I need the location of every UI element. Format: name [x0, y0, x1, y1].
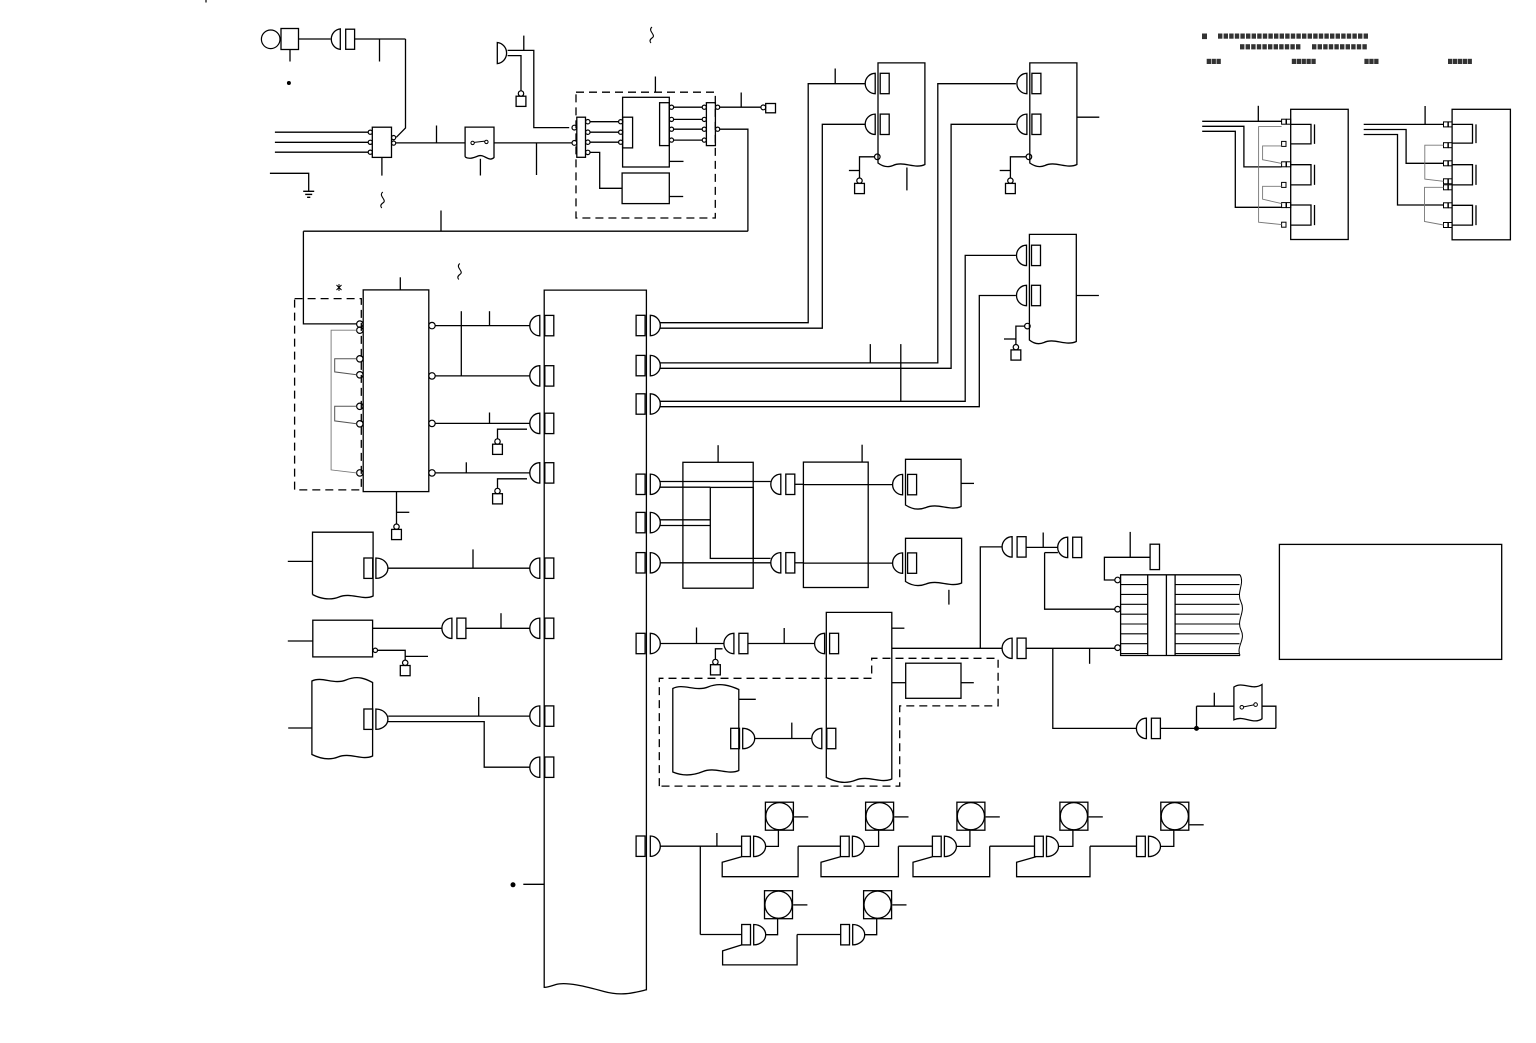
ribbon wire 7 left	[1121, 643, 1148, 645]
T1 winding W2	[335, 406, 357, 424]
note label spec-1	[1292, 59, 1296, 64]
gate B lower stub	[1045, 552, 1058, 554]
ribbon torn edge	[1239, 575, 1242, 656]
gate E pin pair	[1136, 718, 1160, 738]
tick on S2 wire	[1213, 693, 1215, 707]
gate G1	[742, 836, 766, 856]
tick below wire	[536, 143, 538, 175]
tick on aux wire	[849, 170, 860, 172]
terminal E2	[761, 105, 766, 110]
wire branch up to gate A	[980, 547, 1002, 648]
wye tap terminal 2	[1282, 141, 1286, 146]
RB1 aux pin circle	[875, 154, 881, 160]
delta tap terminal 1	[1444, 122, 1448, 127]
box B6 input pin 1	[815, 633, 839, 653]
B3 top tick	[861, 445, 863, 462]
wire relay to switch S1	[396, 142, 465, 144]
logic box B2 body	[710, 487, 753, 558]
tick on aux wire	[405, 655, 428, 657]
wire T1 out2	[435, 375, 530, 377]
gate G4 output to lamp	[1059, 830, 1073, 846]
controller right pin 1	[636, 315, 660, 335]
ribbon wire 6 left	[1121, 633, 1148, 635]
tick above wire	[436, 126, 438, 143]
gate G1 output to lamp	[766, 830, 779, 846]
wye jumper long	[1259, 127, 1282, 225]
wire pin7 to connector	[660, 643, 724, 645]
terminal E7	[1008, 178, 1013, 183]
tick on wire	[478, 697, 480, 716]
plug body stem	[289, 50, 291, 62]
relay block RB3 body	[1029, 234, 1076, 343]
relay K1 output pin circles	[392, 136, 396, 140]
wire to switch S2	[1197, 705, 1234, 707]
gate A output wire	[1026, 546, 1058, 548]
RB3 pin 2	[1017, 285, 1041, 305]
wye input line 1	[1202, 120, 1281, 122]
block B aux wire to terminal	[378, 650, 406, 660]
RB2 right tick	[1077, 116, 1099, 118]
inline connector pair CN3	[442, 618, 466, 638]
controller left pin 7	[530, 706, 554, 726]
lamp DS2 tick	[894, 816, 908, 818]
lamp DS6 tick	[793, 904, 807, 906]
mid connector pin pair lower	[771, 553, 795, 573]
gate A pin pair	[1002, 537, 1026, 557]
note label input-2	[1364, 59, 1368, 64]
lamp DS3	[957, 802, 985, 830]
wire U1 to output bar 4	[674, 139, 703, 141]
box B7 body	[906, 663, 961, 698]
terminal E4	[495, 439, 500, 444]
controller right pin 7	[636, 633, 660, 653]
wye diagram body	[1291, 109, 1349, 239]
tick on gate A output	[1042, 533, 1044, 548]
inline connector pair CN2	[724, 633, 748, 653]
wire pin5 line A	[660, 519, 710, 521]
RB5 input pin	[893, 553, 917, 573]
horn lower wire to terminal	[508, 56, 521, 91]
tick on F1 wire	[1129, 532, 1131, 557]
tiny top edge mark	[205, 0, 207, 3]
asterisk mark	[337, 284, 342, 291]
row1 zigzag link 2	[821, 846, 932, 877]
delta winding W2	[1452, 165, 1476, 185]
wire to box B3 lower	[795, 562, 804, 564]
wire pair pin2 line B	[660, 124, 1016, 368]
RB1 aux wire to terminal	[860, 157, 875, 179]
output header bar J2	[706, 103, 715, 146]
transformer T1 body	[363, 290, 429, 492]
relay K1 bottom stem	[381, 157, 383, 175]
converter IC U2 body	[622, 173, 669, 204]
delta winding W1	[1452, 124, 1476, 143]
ribbon wire 4 right	[1175, 613, 1239, 615]
tick on stem	[397, 511, 410, 513]
wire down to relay K1	[396, 39, 405, 137]
wire J1 pin4 to U2	[590, 152, 622, 188]
wire block A to controller pin L5	[388, 567, 530, 569]
ribbon wire 5 right	[1175, 623, 1239, 625]
branch down to row2	[699, 846, 701, 934]
phase line L1	[275, 131, 368, 133]
gate E output wire	[1161, 727, 1276, 729]
switch S2 return wire	[1262, 706, 1276, 728]
tick below wire	[379, 39, 381, 62]
delta input line 3	[1364, 135, 1444, 206]
lamp DS7 tick	[892, 904, 906, 906]
controller right pin 2	[636, 355, 660, 375]
break squiggle near relay	[381, 192, 384, 208]
gate G4	[1035, 836, 1059, 856]
relay block RB2 body	[1030, 63, 1077, 167]
delta diagram body	[1452, 109, 1510, 240]
ribbon cable bar 1	[1147, 575, 1149, 656]
wire through B3 upper	[803, 484, 868, 486]
connector half P1 mate rect	[346, 29, 355, 49]
RB3 right tick	[1076, 295, 1099, 297]
gate G6	[742, 925, 766, 945]
wire T1 out1	[435, 325, 530, 327]
B1 top tick	[717, 445, 719, 462]
RB1 bottom stem	[906, 168, 908, 191]
switch S2 contacts	[1240, 706, 1244, 710]
wire pin5 line B	[660, 525, 710, 527]
wire B3 to RB4 upper	[868, 484, 892, 486]
terminal E8	[1013, 345, 1018, 350]
block B aux pin circle	[373, 648, 377, 652]
wye tap terminal 4	[1282, 182, 1286, 187]
B7 right tick	[961, 682, 974, 684]
relay K1 body	[372, 127, 391, 157]
ribbon wire 2 right	[1175, 593, 1239, 595]
tick on wire	[783, 628, 785, 644]
wye tap terminal 5	[1282, 203, 1286, 208]
gate G7 output to lamp	[865, 919, 877, 935]
ribbon wire 3 left	[1121, 603, 1148, 605]
legend box	[1279, 544, 1501, 659]
input wire to block C	[288, 727, 312, 729]
lamp DS7	[864, 891, 892, 919]
wire J1 to U1 pin3	[590, 141, 619, 143]
U1 left port rect	[623, 117, 633, 148]
lamp DS4	[1060, 802, 1088, 830]
ribbon cable outer frame	[1121, 575, 1240, 656]
block C output pin	[364, 709, 388, 729]
T1 primary pin circles	[357, 321, 363, 327]
box B6 input pin 2	[812, 728, 836, 748]
T1 tap loop wire	[331, 330, 357, 473]
lamp DS1	[765, 802, 793, 830]
logic box B1 body	[683, 462, 753, 588]
converter IC U1 body	[623, 97, 670, 167]
wire CN2 to box B6	[748, 643, 814, 645]
ribbon wire 4 left	[1121, 613, 1148, 615]
wire U1 to output bar 1	[674, 106, 703, 108]
ribbon wire 8 right	[1175, 653, 1239, 655]
relay box RB4 body	[906, 459, 962, 509]
RB3 aux wire to terminal	[1016, 326, 1025, 344]
delta tap terminal 7	[1444, 223, 1448, 228]
block B body	[313, 620, 373, 657]
gate C output wire to ribbon pin3	[1026, 647, 1114, 649]
dot mark near stub	[511, 883, 515, 887]
note text line 2	[1240, 44, 1244, 49]
ground wire	[270, 173, 309, 191]
block C wire line B to pin L8	[388, 722, 530, 768]
lamp DS6	[765, 891, 793, 919]
tick on wire4	[465, 462, 467, 473]
tick on wire	[791, 723, 793, 739]
wire connector to corner	[355, 38, 406, 40]
terminal E1	[518, 91, 523, 96]
ribbon wire 3 right	[1175, 603, 1239, 605]
ribbon wire 1 left	[1121, 584, 1148, 586]
terminal E3	[394, 524, 399, 529]
tick on wire3	[489, 413, 491, 424]
block C wire line A to pin L7	[388, 715, 530, 717]
lamp DS5	[1161, 802, 1189, 830]
wire to gate G6	[700, 934, 741, 936]
controller left pin 1	[530, 315, 554, 335]
block C body	[312, 678, 373, 759]
wire3 sub-branch to terminal	[498, 429, 528, 439]
gate C pin pair	[1002, 638, 1026, 658]
lamp DS2	[866, 802, 894, 830]
U1 right port rect	[660, 103, 670, 146]
controller left pin 3	[530, 413, 554, 433]
AC plug body square	[281, 29, 299, 50]
B6 right tick	[892, 627, 905, 629]
ribbon wire 7 right	[1175, 643, 1239, 645]
ribbon wire 8 left	[1121, 653, 1148, 655]
wire T1 out4	[435, 472, 530, 474]
relay K1 input pin circles	[368, 130, 372, 134]
controller left pin 5	[530, 558, 554, 578]
wire pair pin1 line A	[660, 84, 865, 323]
input header bar J1	[577, 117, 586, 157]
row1 zigzag link 3	[913, 846, 1035, 877]
wire F1 to ribbon pin1	[1104, 557, 1150, 580]
controller right pin 6	[636, 553, 660, 573]
RB3 pin 1	[1017, 245, 1041, 265]
input wire to block B	[288, 640, 313, 642]
branch down to gate E	[1053, 648, 1136, 728]
switch S2 branch up	[1196, 706, 1198, 728]
gate G2	[840, 836, 864, 856]
relay block RB1 body	[878, 63, 925, 167]
wire pin8 to gate G1	[660, 845, 742, 847]
wire pair pin2 line A	[660, 84, 1016, 363]
switch S1 contacts	[471, 141, 474, 144]
T1 top tick	[399, 277, 401, 290]
break squiggle mid	[458, 264, 461, 280]
controller right pin 4	[636, 474, 660, 494]
ribbon wire 1 right	[1175, 584, 1239, 586]
wire pin6	[660, 562, 771, 564]
gate G3 output to lamp	[957, 830, 970, 846]
wire pin4 line A	[660, 481, 771, 483]
RB5 bottom tick	[948, 590, 950, 605]
RB1 pin 1	[865, 73, 889, 93]
controller left pin 6	[530, 618, 554, 638]
J1 left pin circles	[572, 125, 577, 130]
RB1 pin 2	[865, 114, 889, 134]
wye tap terminal 6	[1282, 222, 1286, 227]
gate G6 output to lamp	[766, 919, 778, 935]
break squiggle top	[650, 27, 653, 43]
delta tap terminal 2	[1444, 143, 1448, 148]
phase line L2	[275, 141, 368, 143]
wire pair pin3 line B	[660, 296, 1016, 407]
B7 left tick	[892, 682, 906, 684]
gate G2 output to lamp	[865, 830, 879, 846]
delta tap terminal 4	[1444, 179, 1448, 184]
link wire1 to wire2	[460, 311, 462, 376]
wye input line 3	[1202, 131, 1281, 207]
wire U1 to output bar 3	[674, 128, 703, 130]
fuse F1 body	[1150, 544, 1159, 569]
switch S2 page box	[1234, 685, 1262, 721]
phase line L3	[275, 151, 368, 153]
controller right pin 3	[636, 394, 660, 414]
junction dot	[1195, 726, 1199, 730]
converter unit dashed enclosure	[576, 92, 715, 218]
controller right pin 5	[636, 512, 660, 532]
row1 zigzag link 4	[1017, 846, 1137, 877]
J2 output circles	[716, 105, 720, 109]
tick below gate C output	[1089, 648, 1091, 664]
relay box RB5 body	[906, 538, 962, 585]
J1 right pin circles	[586, 120, 590, 124]
wire to box B3 upper	[795, 483, 804, 485]
wire pair pin3 line A	[660, 255, 1016, 401]
note label input-1	[1207, 59, 1211, 64]
tick on delta line 1	[1424, 106, 1426, 124]
wye input line 2	[1202, 126, 1281, 167]
wire CN3 to controller pin L6	[466, 627, 530, 629]
main bus wire	[303, 230, 748, 232]
U2 tick right	[669, 196, 683, 198]
delta input line 2	[1364, 130, 1444, 164]
lamp DS4 tick	[1089, 816, 1103, 818]
input wire to block A	[288, 560, 313, 562]
wye jumper U1	[1263, 146, 1282, 164]
row1 zigzag link 1	[722, 846, 840, 877]
B8 output pin	[731, 728, 755, 748]
delta tap terminal 3	[1444, 161, 1448, 166]
wire T1 out3	[435, 422, 530, 424]
gate B pin pair	[1058, 537, 1082, 557]
link tick pin2-pin3	[900, 344, 902, 401]
wire box B6 to gate C	[892, 647, 1003, 649]
tick on line 1	[1257, 106, 1259, 122]
T1 bottom stem	[396, 492, 398, 524]
wye jumper U2	[1263, 186, 1282, 203]
tick above dashed box	[654, 77, 656, 93]
RB3 aux pin circle	[1025, 323, 1031, 329]
tick on line A	[834, 69, 836, 84]
wire J1 to U1 pin2	[590, 131, 619, 133]
tick on RB2 aux wire	[1000, 170, 1011, 172]
row2 zigzag link	[723, 935, 841, 965]
terminal E5	[495, 488, 500, 493]
controller left pin 4	[530, 463, 554, 483]
RB2 aux pin circle	[1026, 154, 1032, 160]
wire pin4 line B	[660, 486, 710, 488]
wire B8 to box B6 pin2	[755, 738, 812, 740]
delta jumper 1	[1425, 145, 1444, 181]
tick on row1 wire	[716, 833, 718, 846]
note text line 1	[1202, 34, 1207, 40]
main controller body	[544, 290, 646, 994]
lamp DS1 tick	[794, 816, 808, 818]
block A body	[313, 532, 374, 599]
connector half P1	[331, 29, 340, 50]
terminal E6	[857, 178, 862, 183]
lamp DS3 tick	[986, 816, 1000, 818]
tick on wire	[523, 36, 525, 51]
ribbon wire 5 left	[1121, 623, 1148, 625]
terminal E9 stem	[715, 649, 722, 660]
wye tap terminal 1	[1282, 119, 1286, 124]
gate G7	[841, 925, 865, 945]
RB2 pin 2	[1017, 114, 1041, 134]
gate G5 output to lamp	[1161, 830, 1174, 846]
lamp DS5 tick	[1190, 824, 1204, 826]
B8 right tick	[739, 698, 756, 700]
switch S1 page box	[465, 127, 494, 159]
T1 secondary pin circles	[429, 322, 435, 328]
wye tap terminal 3	[1282, 162, 1286, 167]
delta winding W3	[1452, 205, 1476, 225]
wye winding W2	[1291, 165, 1315, 185]
tick on RB3 aux wire	[1004, 338, 1016, 340]
block A output pin	[364, 558, 388, 578]
mid connector pin pair upper	[771, 474, 795, 494]
switch S1 bottom stem	[479, 159, 481, 176]
small dot mark	[287, 82, 290, 85]
terminal E9	[713, 659, 718, 664]
RB4 right tick	[961, 482, 974, 484]
controller left pin 2	[530, 366, 554, 386]
output wire 2 to bus	[720, 129, 748, 231]
note label spec-2	[1448, 59, 1452, 64]
wire switch to input header	[494, 142, 572, 144]
ground symbol	[303, 190, 314, 192]
delta tap terminal 6	[1444, 203, 1448, 208]
wire U1 to output bar 2	[674, 118, 703, 120]
AC plug circle	[261, 30, 280, 49]
gate G5	[1137, 836, 1161, 856]
delta jumper 2	[1425, 187, 1444, 225]
RB2 pin 1	[1017, 73, 1041, 93]
wire J1 to U1 pin1	[590, 121, 619, 123]
terminal E10	[403, 660, 408, 665]
controller left pin 8	[530, 757, 554, 777]
tick on wire1	[489, 311, 491, 325]
ribbon wire 6 right	[1175, 633, 1239, 635]
U1 aux tick right	[669, 160, 683, 162]
wye winding W1	[1291, 124, 1315, 143]
wire B2 bottom to lower pin	[753, 557, 770, 559]
output bar input circles	[702, 105, 706, 109]
wye winding W3	[1291, 205, 1315, 225]
U1 output pin circles	[669, 105, 673, 109]
tick on wire	[472, 549, 474, 568]
RB4 input pin	[893, 474, 917, 494]
T1 winding W1	[335, 359, 357, 375]
